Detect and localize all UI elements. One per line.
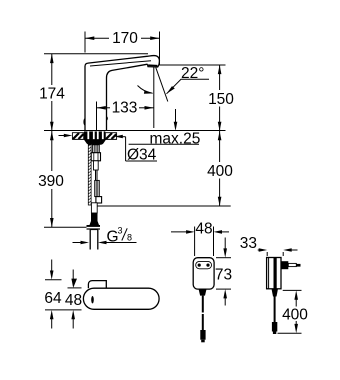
svg-text:170: 170	[112, 30, 138, 47]
svg-text:133: 133	[112, 100, 138, 117]
svg-text:3: 3	[118, 226, 123, 236]
svg-text:150: 150	[208, 91, 234, 108]
svg-text:48: 48	[195, 220, 212, 237]
svg-text:64: 64	[44, 290, 62, 307]
svg-text:max.25: max.25	[150, 130, 201, 147]
svg-text:22°: 22°	[181, 65, 204, 82]
svg-text:48: 48	[65, 292, 82, 309]
svg-text:400: 400	[207, 163, 233, 180]
svg-text:400: 400	[282, 306, 308, 323]
svg-text:73: 73	[215, 266, 232, 283]
svg-text:8: 8	[127, 232, 132, 242]
svg-text:174: 174	[39, 86, 65, 103]
svg-text:390: 390	[38, 173, 64, 190]
svg-text:Ø34: Ø34	[127, 146, 157, 163]
svg-text:33: 33	[240, 235, 257, 252]
